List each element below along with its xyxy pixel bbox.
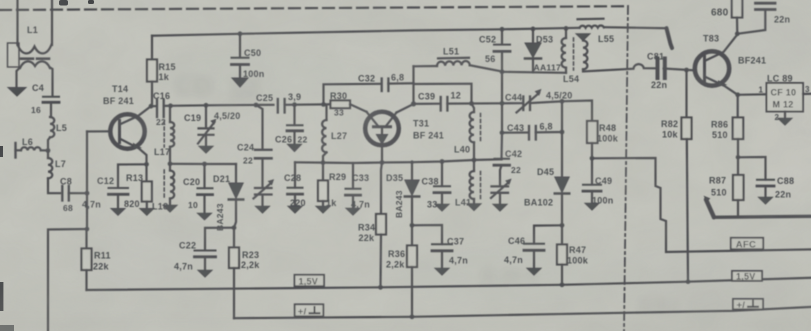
node R82 tap bbox=[684, 68, 689, 73]
capacitor C52 bbox=[479, 27, 510, 72]
capacitor C12 bbox=[82, 164, 147, 209]
transformer L1 bbox=[8, 25, 52, 68]
wire emitter row right bbox=[382, 159, 502, 162]
node column/C43 row bbox=[500, 130, 505, 135]
capacitor C24 bbox=[237, 103, 272, 188]
resistor R30 bbox=[321, 91, 366, 118]
ground L54 secondary top bbox=[576, 34, 590, 41]
wire L54 secondary to C81 bbox=[583, 64, 656, 71]
capacitor C42 bbox=[494, 149, 522, 186]
node R48/C49/AFC bbox=[590, 156, 595, 161]
resistor R11 bbox=[82, 229, 111, 290]
wire D53 row bbox=[502, 72, 566, 73]
dashed boundary vertical (module edge) bbox=[624, 6, 628, 331]
wire C42 column bbox=[500, 72, 503, 160]
node L5/L6/L7 bbox=[46, 148, 51, 153]
inductor L6 bbox=[16, 137, 49, 158]
node emitter row at C38 bbox=[440, 159, 445, 164]
ground C50 bbox=[232, 78, 248, 87]
ground C19 bbox=[199, 146, 213, 153]
wire collector row bbox=[171, 105, 274, 106]
net label +/gnd right bbox=[733, 299, 763, 311]
ground C26 bbox=[288, 144, 302, 151]
thick output line with arrow bbox=[714, 216, 811, 217]
node column/C44 row bbox=[500, 101, 505, 106]
node C39/L40 bbox=[469, 101, 474, 106]
node C32 riser / C39 bbox=[411, 101, 416, 106]
transistor T83 bbox=[695, 34, 766, 95]
wire branch to bottom edge bbox=[48, 229, 87, 331]
resistor R23 bbox=[229, 228, 260, 319]
resistor R36 bbox=[386, 225, 417, 317]
variable capacitor (tuning gang, osc section 2) bbox=[491, 179, 511, 204]
capacitor C22 bbox=[174, 228, 234, 272]
capacitor C20 bbox=[183, 162, 213, 213]
ground LC89 pin 2 bbox=[778, 118, 792, 125]
wire L1 secondary left to ground bbox=[17, 68, 21, 88]
node D21/C22/R23 bbox=[232, 225, 237, 230]
wire AFC trace bbox=[592, 158, 811, 252]
node C8/base column bbox=[85, 191, 90, 196]
ground C37 bbox=[435, 268, 449, 275]
wire C44 node to R48 bbox=[562, 101, 592, 122]
wire T14 base column bbox=[86, 132, 88, 230]
transistor T31 bbox=[365, 112, 444, 163]
inductor L5 bbox=[50, 117, 67, 137]
node R47 rail A bbox=[560, 282, 565, 287]
node R36 rail B bbox=[410, 314, 415, 319]
wire C8 to base column bbox=[69, 192, 87, 194]
wire L1 secondary right down to C4 bbox=[50, 68, 53, 96]
inductor L40 bbox=[454, 104, 481, 161]
net label +/gnd left bbox=[295, 304, 324, 317]
capacitor C8 bbox=[60, 177, 73, 214]
wire osc row left bbox=[170, 163, 236, 165]
capacitor C33 bbox=[346, 163, 371, 210]
net label 1,5V right bbox=[732, 271, 762, 282]
resistor R48 bbox=[587, 121, 619, 158]
inductor L7 bbox=[48, 152, 66, 178]
paper mottle bbox=[0, 0, 1, 1]
inductor L51 bbox=[437, 47, 470, 67]
ground C12 bbox=[111, 209, 125, 216]
node L40/L41 emitter row bbox=[472, 158, 477, 163]
ground C20 bbox=[198, 213, 212, 220]
wire riser to L51 row bbox=[412, 66, 414, 104]
top supply rail bbox=[152, 27, 667, 36]
wire T14 base bbox=[87, 130, 110, 132]
capacitor C81 bbox=[647, 52, 694, 91]
diode D45 bbox=[524, 167, 569, 225]
resistor R15 bbox=[147, 36, 176, 106]
ground C28 bbox=[288, 206, 302, 213]
net label 1,5V left bbox=[295, 275, 325, 287]
wire antenna feed right bbox=[51, 0, 53, 45]
wire osc row middle bbox=[295, 161, 382, 164]
ground L18 bbox=[163, 205, 177, 212]
supply stub arrow bbox=[667, 28, 673, 48]
ground L41 bbox=[467, 204, 481, 211]
node T14 emitter / C12 tap bbox=[144, 162, 149, 167]
ground varicap 2 bbox=[493, 204, 507, 211]
diode D35 bbox=[386, 162, 419, 225]
node L27/R29 bbox=[321, 160, 326, 165]
node T83 emitter bbox=[735, 92, 740, 97]
net label AFC bbox=[731, 238, 763, 251]
resistor R29 bbox=[318, 163, 346, 208]
wire antenna feed left bbox=[16, 0, 18, 45]
wire T31 collector bbox=[397, 104, 414, 113]
ground R29 bbox=[316, 206, 330, 213]
node R34 rail A bbox=[378, 285, 383, 290]
ground C22 bbox=[198, 270, 212, 277]
wire L51 to C52 node bbox=[470, 65, 502, 71]
node D35/R36/C37 bbox=[410, 223, 415, 228]
inductor L27 bbox=[322, 106, 347, 163]
node R86/R87/C88 bbox=[736, 155, 741, 160]
capacitor C16 bbox=[151, 91, 171, 127]
capacitor C28 bbox=[284, 162, 306, 208]
dashed boundary top bbox=[0, 6, 628, 10]
wire C39 node to C44 bbox=[472, 102, 523, 105]
rail A (1,5V bus) bbox=[87, 278, 811, 290]
capacitor C37 bbox=[412, 225, 468, 268]
inductor L41 bbox=[455, 160, 481, 208]
node T83 collector bbox=[735, 31, 740, 36]
node C43/D45 column bbox=[560, 130, 565, 135]
node T31 emitter bbox=[380, 160, 385, 165]
resistor R47 bbox=[557, 225, 589, 285]
node R82 rail A bbox=[686, 279, 691, 284]
diode D53 bbox=[525, 27, 561, 73]
inductor L18 bbox=[152, 164, 174, 212]
varicap C44 bbox=[505, 90, 573, 113]
ground varicap 1 bbox=[256, 206, 270, 213]
node R11 top bbox=[85, 227, 90, 232]
node collector/R15/C16 bbox=[149, 104, 154, 109]
capacitor C25 bbox=[256, 92, 324, 113]
capacitor C46 bbox=[504, 225, 562, 268]
trimmer C19 bbox=[184, 103, 241, 146]
ground (antenna) bbox=[8, 88, 26, 97]
capacitor C84 22n bbox=[737, 3, 790, 34]
resistor R13 bbox=[124, 173, 152, 209]
node D45/R47/C46 bbox=[560, 223, 565, 228]
diode D21 bbox=[213, 164, 243, 231]
wire C39 row bbox=[414, 103, 441, 105]
node C44/R48 bbox=[560, 99, 565, 104]
capacitor C26 bbox=[275, 102, 307, 144]
rail B (+/chassis bus) bbox=[234, 307, 811, 318]
node L17/L18 bbox=[168, 161, 173, 166]
inductor L55 bbox=[578, 19, 615, 44]
capacitor C43 bbox=[502, 122, 562, 140]
resistor R82 bbox=[661, 70, 692, 282]
capacitor C38 bbox=[422, 162, 451, 210]
node C16/L17 bbox=[168, 103, 173, 108]
capacitor C4 bbox=[31, 83, 59, 115]
wire D45 column bbox=[561, 101, 563, 177]
resistor R87 bbox=[709, 157, 744, 217]
node emitter row at D35 bbox=[410, 160, 414, 164]
capacitor C49 bbox=[583, 158, 614, 205]
resistor R34 bbox=[358, 163, 386, 288]
capacitor C39 bbox=[418, 91, 472, 111]
wire L5 to node bbox=[48, 137, 50, 152]
edge artifacts bbox=[0, 0, 94, 331]
inductor L17 bbox=[154, 106, 174, 164]
resistor R86 bbox=[711, 95, 743, 158]
faint ghost print-through bbox=[90, 71, 678, 314]
wire C4 to L5 bbox=[50, 103, 52, 117]
capacitor C50 bbox=[232, 31, 265, 79]
transformer L54 bbox=[562, 26, 588, 84]
wire loop riser right bbox=[414, 84, 472, 104]
ground R13 bbox=[140, 209, 154, 216]
capacitor C88 bbox=[738, 157, 794, 200]
filter LC89 bbox=[759, 74, 811, 123]
ground C33 bbox=[346, 208, 360, 215]
capacitor C32 bbox=[324, 73, 414, 105]
node C52 bottom row bbox=[500, 69, 505, 74]
transistor T14 bbox=[103, 84, 151, 182]
ground C88 bbox=[759, 197, 773, 204]
ground C46 bbox=[527, 268, 541, 275]
wire L51 row bbox=[414, 65, 438, 68]
ground C49 bbox=[585, 203, 599, 210]
ground C38 bbox=[435, 204, 449, 211]
variable capacitor (tuning gang, osc section 1) bbox=[254, 180, 274, 206]
wire emitter to LC89 pin 1 bbox=[738, 93, 767, 96]
wire L7 to C8 bbox=[48, 178, 60, 193]
resistor R85 680 bbox=[711, 0, 742, 34]
